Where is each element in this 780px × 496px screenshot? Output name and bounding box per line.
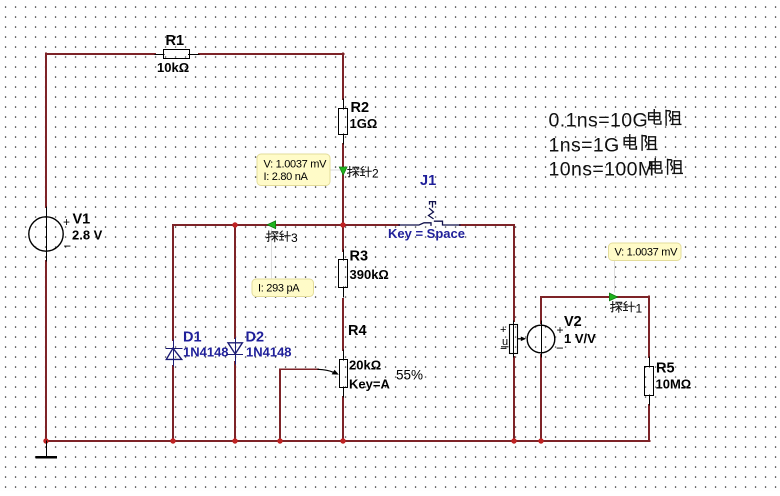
probe 2 label (tan zhen 2) — [348, 167, 380, 181]
wire top: R1 right to node corner — [199, 53, 344, 55]
node junction: D1 at bottom rail — [170, 438, 175, 443]
probe 1 arrow — [609, 293, 617, 301]
annotation text line 1: 0.1ns=10G dian-zu — [549, 110, 681, 132]
node junction mid (343,225) — [340, 222, 345, 227]
svg-text:J1: J1 — [420, 173, 436, 189]
wire middle rail: D1 node to switch — [173, 224, 399, 226]
switch J1 — [399, 202, 460, 226]
wire: V2 input bottom to bottom rail — [513, 357, 515, 441]
probe 3 readout box — [252, 279, 314, 297]
svg-text:V: 1.0037 mV: V: 1.0037 mV — [615, 247, 679, 259]
svg-text:I: 2.80 nA: I: 2.80 nA — [264, 171, 309, 183]
svg-text:Key=A: Key=A — [349, 377, 390, 392]
wire: D1 branch upper — [172, 225, 174, 340]
svg-text:R2: R2 — [351, 100, 370, 116]
svg-text:R1: R1 — [166, 33, 185, 49]
svg-text:10kΩ: 10kΩ — [157, 60, 189, 75]
resistor R1 — [155, 50, 199, 59]
wire: D1 branch lower — [172, 366, 174, 441]
probe 2 readout connector — [330, 169, 340, 171]
resistor R2 — [339, 99, 348, 144]
svg-text:1N4148: 1N4148 — [246, 345, 292, 360]
svg-text:0.1ns=10G: 0.1ns=10G — [549, 110, 649, 132]
svg-text:390kΩ: 390kΩ — [350, 267, 389, 282]
svg-text:V2: V2 — [564, 314, 582, 330]
wire top right: V2 to R5 corner — [541, 296, 649, 298]
wire: switch right to corner, down to V2 input — [460, 225, 514, 321]
probe 1 readout connector — [614, 261, 616, 293]
annotation text line 2: 1ns=1G dian-zu — [549, 135, 657, 157]
svg-text:10ns=100M: 10ns=100M — [549, 159, 655, 181]
node junction: V2 output at bottom rail — [538, 438, 543, 443]
probe 2 arrow — [339, 167, 347, 175]
wire: middle node down to R3 — [342, 225, 344, 251]
wire: R2 bottom to middle node — [342, 144, 344, 225]
svg-text:10MΩ: 10MΩ — [656, 377, 692, 392]
probe 2 readout box — [257, 154, 330, 186]
wire left: top corner down to V1 — [45, 53, 47, 207]
wire left: V1 bottom to ground node — [45, 261, 47, 441]
svg-text:2: 2 — [372, 167, 379, 181]
svg-text:Key = Space: Key = Space — [388, 226, 465, 241]
probe 1 readout box — [609, 243, 682, 261]
svg-text:R5: R5 — [656, 361, 675, 377]
wire: R4 bottom to bottom rail — [342, 397, 344, 441]
resistor R3 — [339, 250, 348, 297]
node junction: R4 at bottom rail — [340, 438, 345, 443]
wire: D2 branch upper — [234, 225, 236, 338]
svg-text:D1: D1 — [183, 330, 202, 346]
wire bottom rail — [46, 440, 650, 442]
node junction: R4 wiper at bottom rail — [277, 438, 282, 443]
svg-text:R3: R3 — [350, 249, 369, 265]
svg-text:+: + — [63, 215, 70, 229]
svg-text:R4: R4 — [348, 323, 367, 339]
wire: R3 bottom to R4 top — [342, 299, 344, 350]
svg-text:D2: D2 — [246, 330, 265, 346]
svg-text:−: − — [556, 341, 564, 356]
svg-text:55%: 55% — [396, 368, 423, 383]
node junction D2 top (235,225) — [232, 222, 237, 227]
svg-text:I: 293 pA: I: 293 pA — [258, 283, 300, 295]
probe 3 readout connector — [271, 229, 273, 279]
ground — [37, 441, 57, 457]
wire: R5 bottom to bottom rail — [648, 405, 650, 441]
node junction: V2 input at bottom rail — [511, 438, 516, 443]
svg-text:+: + — [500, 324, 506, 336]
svg-text:+: + — [557, 323, 564, 337]
resistor R5 — [645, 357, 654, 405]
wire: D2 branch lower — [234, 362, 236, 441]
svg-text:−: − — [500, 342, 507, 356]
diode D1 — [166, 340, 181, 366]
svg-text:1: 1 — [636, 302, 643, 316]
svg-text:20kΩ: 20kΩ — [349, 358, 381, 373]
diode D2 — [228, 338, 243, 364]
node junction: D2 at bottom rail — [232, 438, 237, 443]
svg-text:1ns=1G: 1ns=1G — [549, 135, 620, 157]
probe 3 label (tan zhen 3) — [267, 231, 299, 245]
annotation text line 3: 10ns=100M dian-zu — [549, 159, 683, 181]
wire: V2 output top to probe1 corner — [540, 297, 542, 323]
probe 3 arrow — [267, 221, 275, 229]
wire: R4 wiper horizontal — [280, 368, 318, 370]
svg-text:1N4148: 1N4148 — [183, 345, 229, 360]
svg-text:−: − — [64, 239, 72, 254]
wire: R5 corner down to R5 — [648, 296, 650, 357]
svg-text:V: 1.0037 mV: V: 1.0037 mV — [264, 159, 328, 171]
svg-text:V1: V1 — [73, 212, 91, 228]
svg-text:3: 3 — [291, 231, 298, 245]
wire top: V1 to R1 left — [46, 53, 155, 55]
wire: V2 output bottom to bottom rail — [540, 355, 542, 441]
node junction: V1/ground at bottom rail — [43, 438, 48, 443]
probe 1 label (tan zhen 1) — [611, 302, 643, 316]
svg-text:1GΩ: 1GΩ — [350, 116, 378, 131]
wire right branch: top corner down to R2 — [342, 53, 344, 99]
potentiometer R4 — [340, 350, 348, 397]
wire: R4 wiper vertical to bottom rail — [279, 369, 281, 441]
svg-text:1 V/V: 1 V/V — [564, 331, 596, 346]
source V1 — [29, 207, 63, 261]
svg-text:2.8 V: 2.8 V — [72, 228, 103, 243]
source V2 (VCVS) — [510, 321, 555, 357]
R4 wiper arrow — [318, 369, 333, 372]
